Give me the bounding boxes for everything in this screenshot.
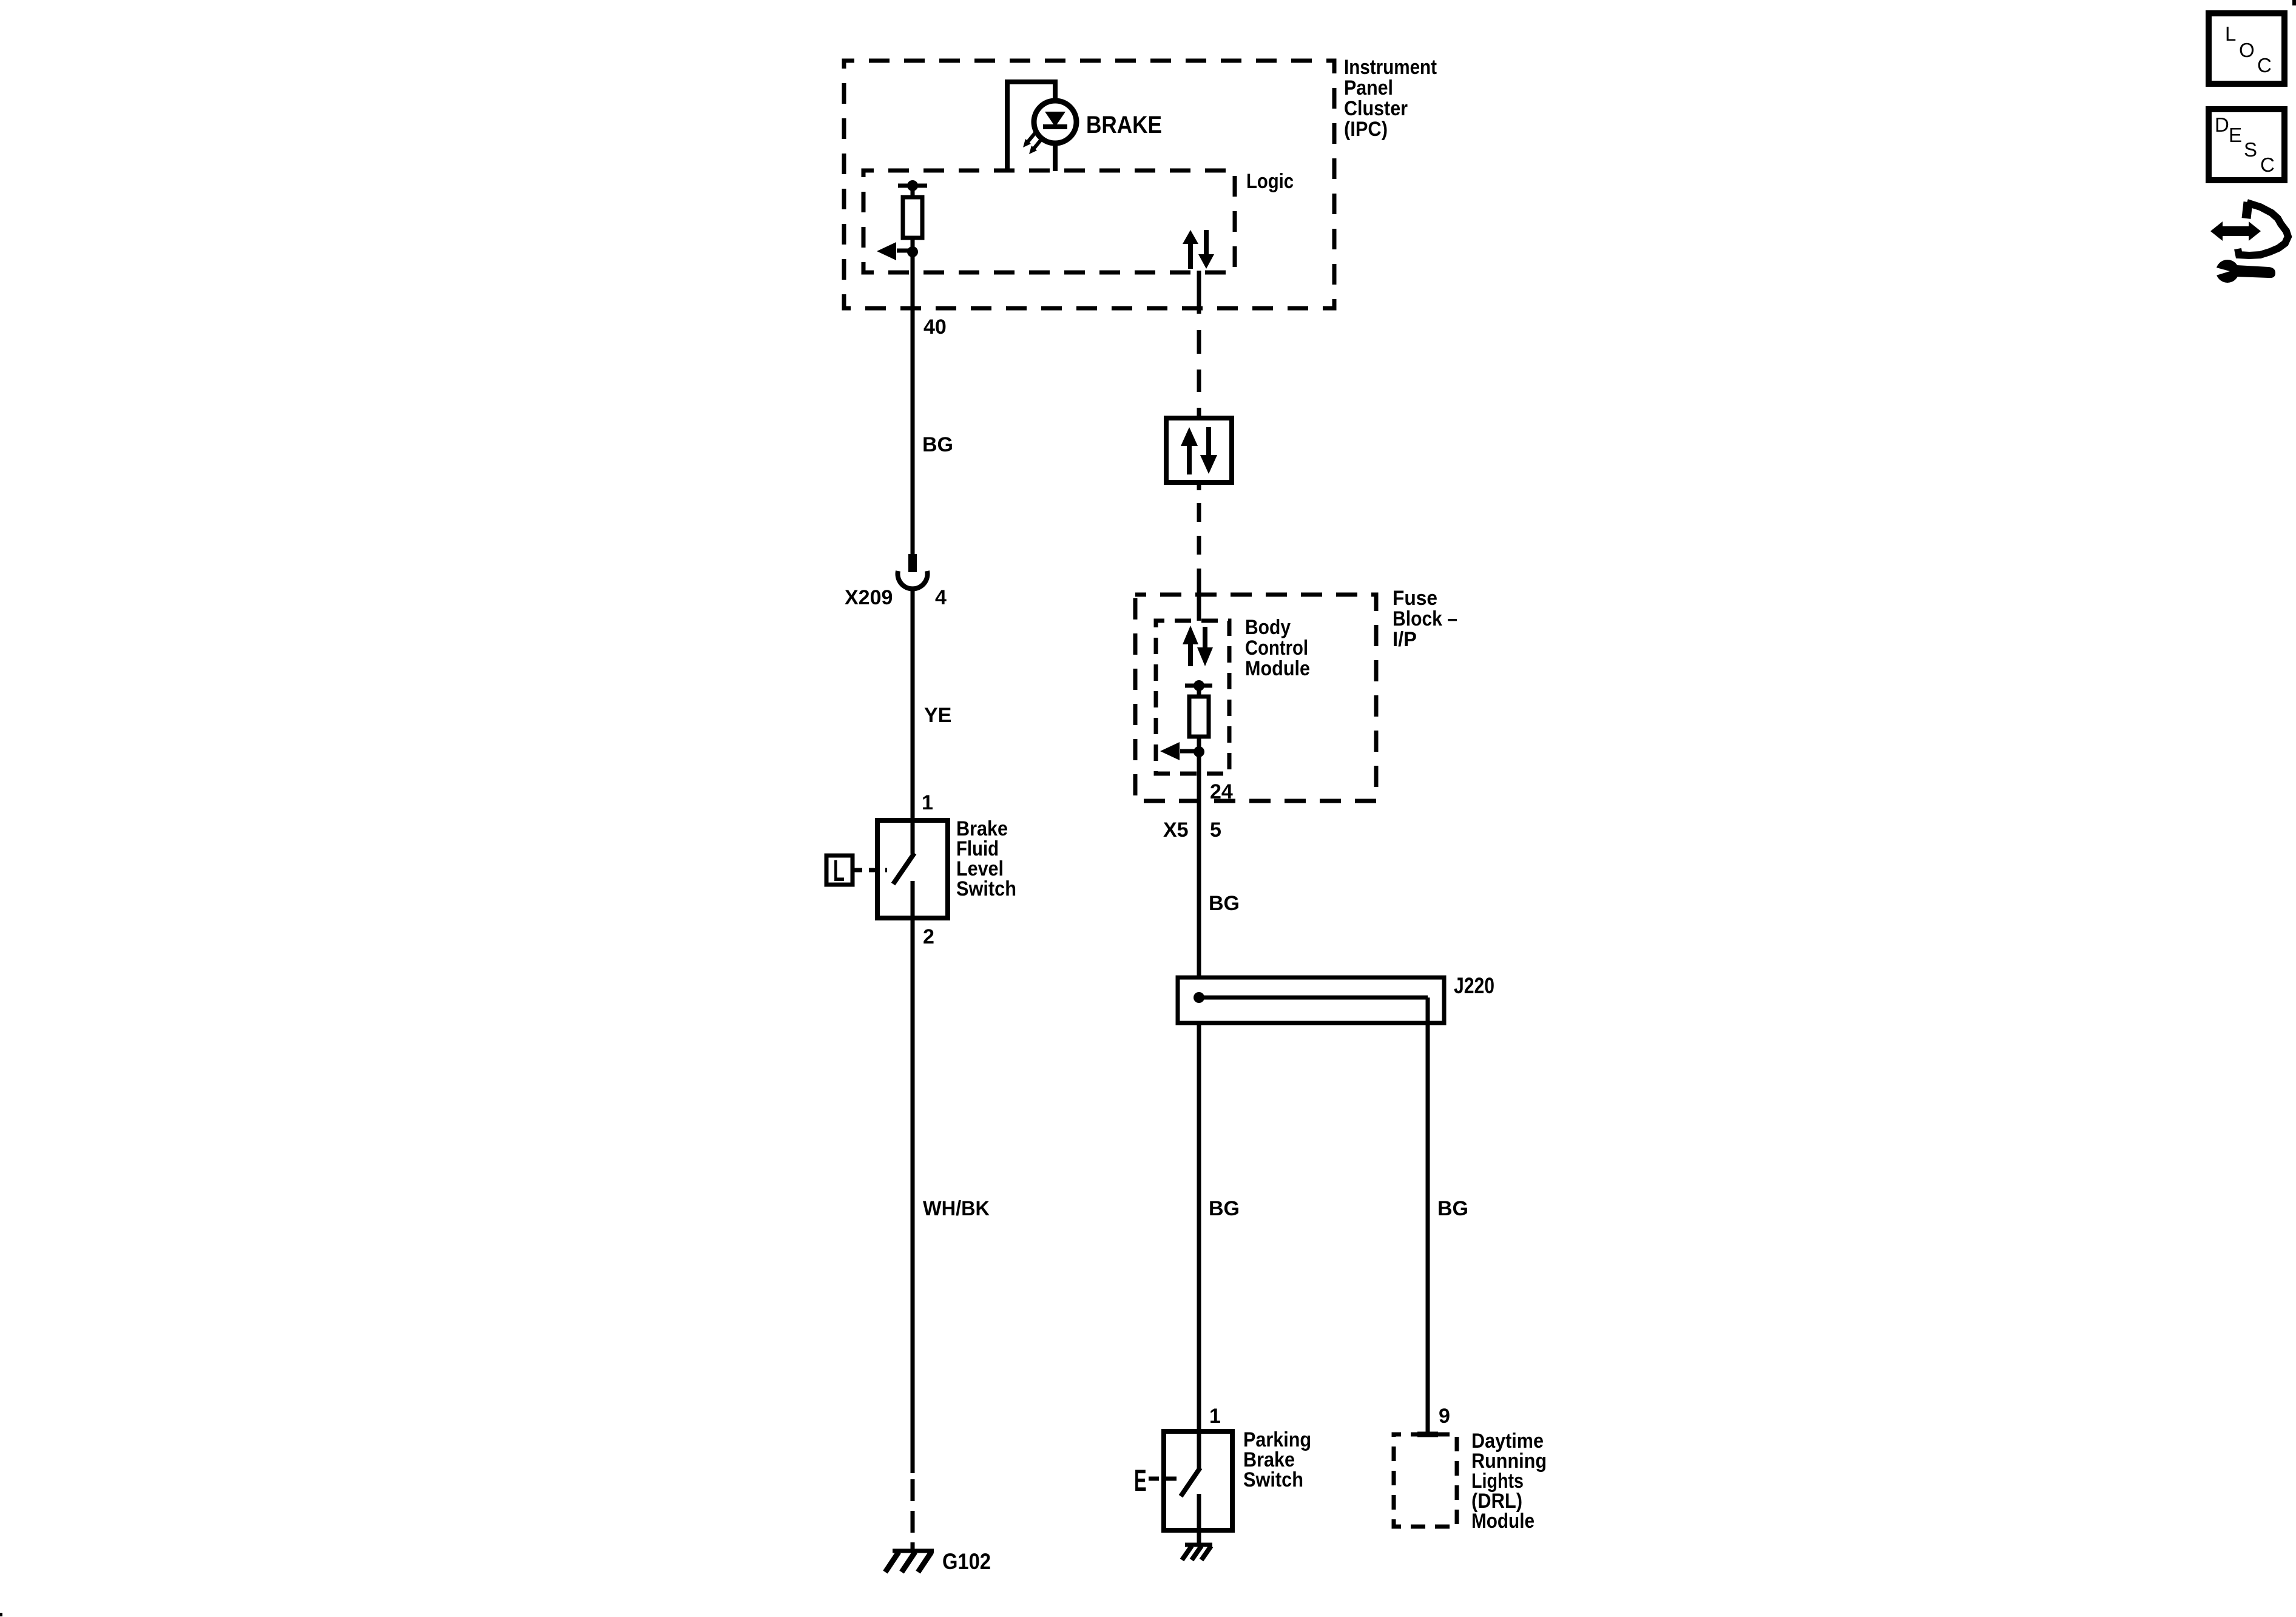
module box U2: Body Control Module, dashed outline <box>1156 621 1229 774</box>
page corner mark bottom-left <box>0 1613 2 1616</box>
symbol: L (fluid level) in box <box>826 856 853 885</box>
arrow: BCM input pointing left <box>1180 749 1199 754</box>
wire: BCM pin 24 through X5 pin 5 down to J220 (BG) <box>1197 752 1201 977</box>
svg-text:BG: BG <box>1209 892 1240 915</box>
serial data arrows in Logic box (up/down) <box>1188 243 1193 269</box>
dashed actuation link from E symbol to switch <box>1149 1477 1178 1481</box>
switch S1 lower contact <box>911 881 915 918</box>
module box U1: Instrument Panel Cluster (IPC), dashed outline <box>844 61 1334 308</box>
svg-text:X209: X209 <box>845 586 893 609</box>
svg-text:Logic: Logic <box>1246 170 1294 193</box>
indicator lamp E1: BRAKE LED circle <box>1034 101 1076 143</box>
wire: dashed portion above ground G102 <box>911 1479 915 1552</box>
svg-text:Module: Module <box>1471 1510 1535 1533</box>
svg-text:S: S <box>2244 138 2257 161</box>
svg-text:(IPC): (IPC) <box>1344 118 1388 141</box>
module box: Fuse Block - I/P, dashed outline <box>1135 595 1376 801</box>
svg-text:40: 40 <box>923 316 947 339</box>
svg-text:BG: BG <box>1209 1197 1240 1220</box>
svg-text:I/P: I/P <box>1393 628 1417 651</box>
ground symbol at parking brake switch <box>1185 1543 1212 1547</box>
wire into parking brake switch <box>1197 1431 1201 1468</box>
svg-text:C: C <box>2260 154 2275 176</box>
module box: Logic block inside IPC, dashed outline <box>863 170 1235 272</box>
junction node inside J220 <box>1194 992 1204 1003</box>
arrow: logic output pointing left <box>897 249 913 253</box>
junction node: BCM sense node <box>1194 746 1204 757</box>
svg-text:BG: BG <box>922 433 953 456</box>
svg-text:Instrument: Instrument <box>1344 56 1437 79</box>
resistor R2: BCM pull-up (top bar, node dot, body) <box>1185 684 1212 688</box>
page corner mark top-right <box>2292 0 2296 5</box>
switch S2 lower contact to ground <box>1197 1494 1201 1545</box>
connector X209 male terminal <box>908 554 917 572</box>
wire: IPC pin 40 down to connector X209 (BG) <box>911 252 915 554</box>
wire: J220 right branch down to DRL module pin 9 (BG) <box>1426 998 1430 1433</box>
dashed actuation link from L symbol to switch <box>853 868 887 873</box>
serial data arrows in BCM (up/down) <box>1188 644 1193 666</box>
svg-text:G102: G102 <box>942 1549 991 1574</box>
svg-text:YE: YE <box>924 704 951 727</box>
DRL module pin 9 entry bar <box>1417 1432 1438 1437</box>
svg-text:Cluster: Cluster <box>1344 97 1408 120</box>
wire: J220 left branch down to parking brake switch pin 1 (BG) <box>1197 1023 1201 1431</box>
LED cathode bar <box>1043 124 1067 129</box>
svg-text:L: L <box>833 853 845 887</box>
svg-text:O: O <box>2239 39 2255 61</box>
svg-text:E: E <box>2229 124 2242 146</box>
wire: serial data continues to fuse block (dashed then solid) <box>1197 482 1201 490</box>
svg-text:Module: Module <box>1245 657 1310 680</box>
splice pack J220 box <box>1178 977 1444 1023</box>
ground G102 symbol <box>893 1549 934 1553</box>
LED light emission arrow 1 <box>1027 133 1035 143</box>
icon: wrench <box>2216 260 2275 283</box>
svg-text:2: 2 <box>923 925 934 948</box>
svg-text:24: 24 <box>1210 780 1233 803</box>
svg-text:J220: J220 <box>1454 973 1494 998</box>
svg-text:Fuse: Fuse <box>1393 587 1437 610</box>
svg-text:BRAKE: BRAKE <box>1086 112 1162 138</box>
svg-text:Block –: Block – <box>1393 607 1457 630</box>
switch S2 blade <box>1181 1468 1200 1496</box>
svg-text:1: 1 <box>1209 1405 1221 1428</box>
wire: X209 pin 4 down to switch pin 1 (YE) <box>911 587 915 854</box>
icon: LOC box <box>2209 13 2284 84</box>
LED light emission arrow 2 <box>1033 140 1041 150</box>
svg-text:4: 4 <box>935 586 947 609</box>
svg-text:D: D <box>2215 113 2229 136</box>
svg-text:Switch: Switch <box>1243 1468 1303 1491</box>
wire: J220 internal bus <box>1199 996 1428 1000</box>
svg-text:Panel: Panel <box>1344 76 1393 100</box>
svg-text:X5: X5 <box>1163 819 1189 842</box>
svg-text:WH/BK: WH/BK <box>923 1197 990 1220</box>
symbol: serial data box with up/down arrows <box>1166 418 1232 482</box>
icon: DESC box <box>2209 109 2284 180</box>
wire: lamp supply loop inside IPC <box>1007 82 1055 171</box>
switch S2: Parking Brake Switch box <box>1164 1431 1232 1530</box>
svg-text:Switch: Switch <box>956 877 1016 900</box>
icon: double-headed arrow <box>2210 221 2261 241</box>
icon: adjust hand outline <box>2246 202 2248 218</box>
switch S1 blade <box>893 853 914 884</box>
resistor R1: IPC lamp driver in Logic box (top bar, node dot, body) <box>898 184 927 188</box>
wire: serial data from Logic box down (solid then dashed) <box>1197 271 1201 314</box>
svg-text:L: L <box>2225 22 2236 45</box>
junction node: logic driver output <box>907 246 918 257</box>
module box U3: Daytime Running Lights (DRL) Module, dashed outline <box>1394 1434 1457 1527</box>
svg-text:C: C <box>2257 54 2272 76</box>
svg-text:Control: Control <box>1245 636 1308 660</box>
svg-text:5: 5 <box>1210 819 1221 842</box>
svg-text:1: 1 <box>922 791 933 814</box>
connector X209 female terminal arc <box>897 571 927 589</box>
switch S1: Brake Fluid Level Switch box <box>877 820 948 918</box>
svg-text:9: 9 <box>1439 1405 1450 1428</box>
svg-text:E: E <box>1134 1463 1147 1497</box>
LED anode triangle <box>1045 112 1065 127</box>
svg-text:BG: BG <box>1437 1197 1468 1220</box>
svg-text:Body: Body <box>1245 616 1291 639</box>
wire: switch pin 2 down to G102 (WH/BK) <box>911 918 915 1473</box>
